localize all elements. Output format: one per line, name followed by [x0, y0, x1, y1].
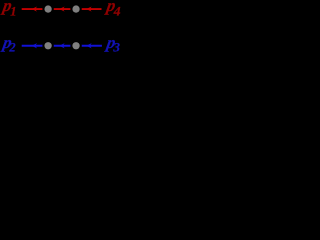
arrowhead on bottom segment 2 — [59, 43, 64, 48]
vertex dot top-left — [44, 5, 51, 12]
vertex gap ring bottom-left — [42, 40, 53, 51]
arrowhead on top segment 3 — [86, 6, 92, 11]
svg-text:2: 2 — [8, 41, 15, 55]
label p1 — [0, 0, 17, 19]
label p4 — [103, 0, 120, 19]
label p2 — [0, 33, 16, 55]
svg-text:4: 4 — [112, 5, 120, 19]
vertex gap ring top-right — [70, 3, 81, 14]
vertex dot bottom-left — [44, 42, 51, 49]
arrowhead on top segment 1 — [32, 6, 37, 11]
wire: top fermion line from p1 to p4 — [22, 8, 102, 10]
svg-text:3: 3 — [112, 41, 120, 55]
svg-text:1: 1 — [10, 5, 17, 19]
background — [0, 0, 125, 57]
arrowhead on top segment 2 — [59, 6, 64, 11]
wire: bottom fermion line from p2 to p3 — [22, 45, 102, 47]
arrowhead on bottom segment 1 — [32, 43, 37, 48]
vertex dot bottom-right — [72, 42, 79, 49]
vertex gap ring bottom-right — [70, 40, 81, 51]
arrowhead on bottom segment 3 — [86, 43, 92, 48]
label p3 — [103, 33, 120, 55]
vertex dot top-right — [72, 5, 79, 12]
vertex gap ring top-left — [42, 3, 53, 14]
